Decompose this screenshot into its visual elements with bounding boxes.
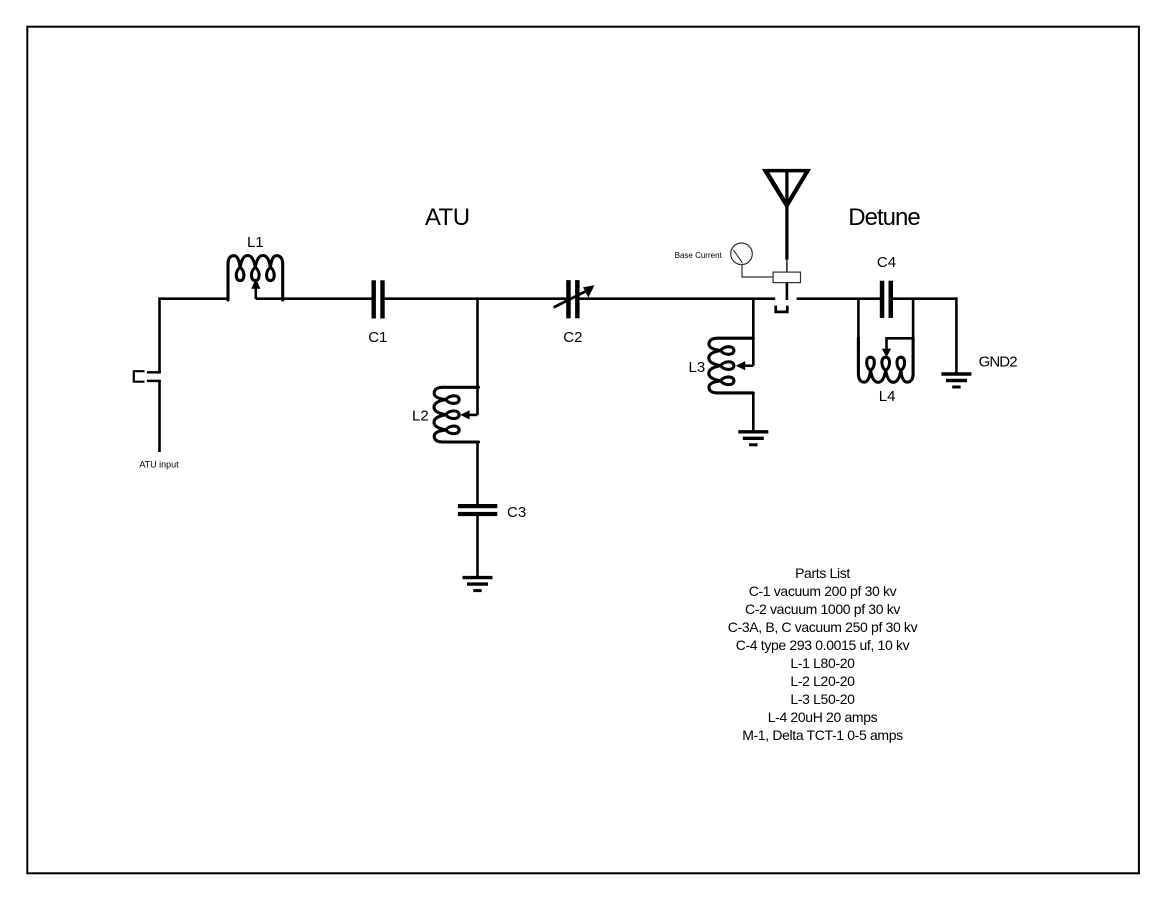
svg-text:L4: L4 [879, 388, 896, 405]
svg-text:Parts List: Parts List [795, 565, 850, 581]
svg-text:C1: C1 [368, 329, 387, 346]
svg-text:C2: C2 [563, 329, 582, 346]
svg-text:C-1 vacuum 200 pf 30 kv: C-1 vacuum 200 pf 30 kv [749, 583, 897, 599]
svg-text:L-3 L50-20: L-3 L50-20 [790, 691, 855, 707]
svg-text:L-4 20uH 20 amps: L-4 20uH 20 amps [768, 709, 878, 725]
svg-text:C-2 vacuum 1000 pf 30 kv: C-2 vacuum 1000 pf 30 kv [745, 601, 900, 617]
svg-text:C4: C4 [877, 254, 896, 271]
svg-text:L-2 L20-20: L-2 L20-20 [790, 673, 855, 689]
svg-text:C3: C3 [507, 504, 526, 521]
svg-text:M-1, Delta TCT-1 0-5 amps: M-1, Delta TCT-1 0-5 amps [742, 727, 903, 743]
svg-text:ATU: ATU [425, 204, 470, 231]
svg-text:L1: L1 [247, 234, 264, 251]
svg-text:Detune: Detune [848, 204, 920, 231]
svg-text:C-3A, B, C vacuum 250 pf 30 kv: C-3A, B, C vacuum 250 pf 30 kv [728, 619, 918, 635]
svg-text:Base Current: Base Current [675, 251, 723, 260]
svg-text:GND2: GND2 [979, 353, 1018, 370]
svg-text:ATU input: ATU input [139, 460, 179, 470]
svg-text:C-4 type 293 0.0015 uf, 10 kv: C-4 type 293 0.0015 uf, 10 kv [736, 637, 910, 653]
svg-text:L3: L3 [689, 359, 706, 376]
svg-text:L-1 L80-20: L-1 L80-20 [790, 655, 855, 671]
svg-text:L2: L2 [412, 407, 429, 424]
